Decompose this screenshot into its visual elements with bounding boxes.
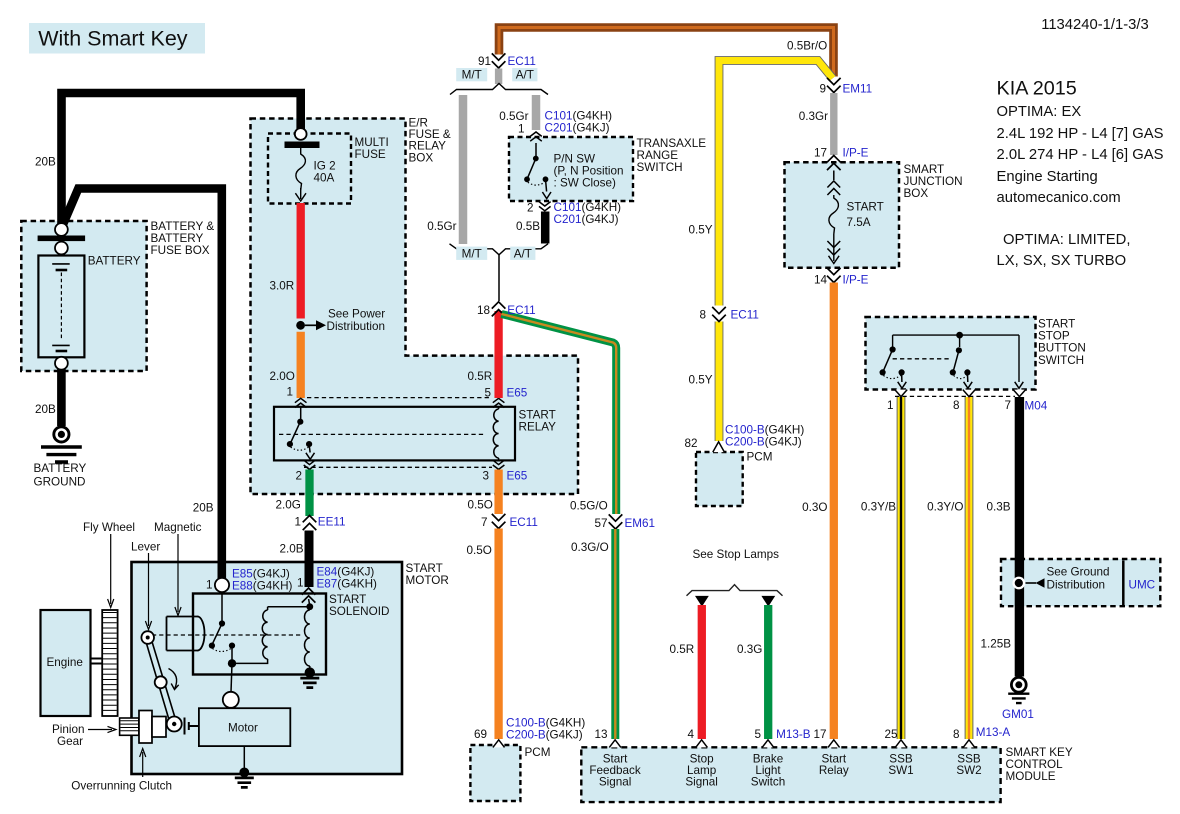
svg-text:Engine Starting: Engine Starting <box>997 169 1098 185</box>
svg-text:See Stop Lamps: See Stop Lamps <box>693 548 780 561</box>
connector 1 C101/C201 <box>530 132 542 141</box>
svg-text:A/T: A/T <box>514 247 532 260</box>
wire 0.3O to module pin17 <box>830 283 838 740</box>
module pin 25 <box>895 740 907 748</box>
svg-text:0.3B: 0.3B <box>986 501 1010 514</box>
svg-text:13: 13 <box>594 728 607 741</box>
wire 2.0O <box>297 332 305 398</box>
motor ground <box>239 768 249 778</box>
gray stub below EC11 <box>495 69 502 85</box>
svg-text:0.3G: 0.3G <box>737 643 762 656</box>
svg-text:8: 8 <box>953 728 960 741</box>
M/T A/T merge bracket <box>450 244 549 255</box>
svg-text:E87(G4KH): E87(G4KH) <box>317 578 378 591</box>
multi fuse terminal <box>295 128 307 140</box>
M04 pin 1 <box>895 390 907 397</box>
relay coil <box>493 409 498 458</box>
svg-text:See Ground: See Ground <box>1047 566 1110 579</box>
relay switch <box>300 407 302 420</box>
P/N switch <box>535 143 537 157</box>
wire 0.5R relay pin5 <box>494 311 502 398</box>
svg-text:0.3Gr: 0.3Gr <box>799 110 828 123</box>
svg-text:RANGE: RANGE <box>637 149 679 162</box>
svg-text:FUSE BOX: FUSE BOX <box>151 244 210 257</box>
PCM pin 82 <box>713 442 725 452</box>
relay internal dashed link <box>279 433 486 435</box>
svg-text:M13-B: M13-B <box>776 728 811 741</box>
connector 1 EE11 <box>303 516 317 531</box>
module pin 17 <box>828 740 840 748</box>
svg-text:0.5Gr: 0.5Gr <box>499 110 528 123</box>
svg-text:69: 69 <box>474 728 487 741</box>
ground distribution junction <box>1012 577 1025 590</box>
svg-text:Distribution: Distribution <box>1047 579 1105 592</box>
start solenoid connector E84/E87 <box>302 588 316 603</box>
svg-text:5: 5 <box>484 386 491 399</box>
svg-text:E85(G4KJ): E85(G4KJ) <box>232 568 290 581</box>
svg-text:8: 8 <box>699 309 706 322</box>
svg-text:0.5G/O: 0.5G/O <box>570 499 608 512</box>
svg-text:0.3Y/O: 0.3Y/O <box>927 501 963 514</box>
svg-text:BATTERY &: BATTERY & <box>151 220 215 233</box>
power distribution junction <box>296 321 305 330</box>
start motor battery terminal <box>215 578 229 592</box>
wire 0.5B <box>541 212 550 244</box>
SSB switch 2 <box>959 335 961 347</box>
svg-text:7: 7 <box>1004 399 1011 412</box>
svg-text:Lever: Lever <box>131 541 160 554</box>
svg-text:0.5R: 0.5R <box>468 370 493 383</box>
SSB right leg <box>1018 335 1020 382</box>
svg-text:UMC: UMC <box>1129 579 1156 592</box>
svg-text:LX, SX, SX TURBO: LX, SX, SX TURBO <box>997 253 1127 269</box>
lever rotation arrow <box>169 669 177 689</box>
svg-text:START: START <box>847 201 884 214</box>
fuse START 7.5A <box>833 171 835 181</box>
smart junction box <box>785 162 900 267</box>
svg-text:1: 1 <box>294 515 301 528</box>
svg-text:20B: 20B <box>35 403 56 416</box>
svg-text:EC11: EC11 <box>510 516 538 529</box>
start motor box <box>132 562 403 774</box>
engine block <box>41 610 91 716</box>
svg-text:BUTTON: BUTTON <box>1038 342 1086 355</box>
module pin 4 <box>696 740 708 748</box>
E/R fuse and relay box <box>251 119 579 495</box>
svg-text:3: 3 <box>482 469 489 482</box>
svg-text:0.5Y: 0.5Y <box>688 223 712 236</box>
wire 0.3Y/O <box>965 397 974 739</box>
connector 9 EM11 <box>827 78 841 93</box>
svg-text:Motor: Motor <box>228 721 258 734</box>
svg-text:CONTROL: CONTROL <box>1006 758 1064 771</box>
wire 0.5O relay pin3 to EC11 <box>494 470 502 515</box>
svg-text:18: 18 <box>477 304 490 317</box>
svg-text:M04: M04 <box>1025 400 1048 413</box>
svg-text:C201(G4KJ): C201(G4KJ) <box>554 213 619 226</box>
wire 0.5Y EC11 to PCM 82 <box>715 322 724 442</box>
wire 0.5R stop lamp signal <box>698 605 706 739</box>
svg-text:0.5O: 0.5O <box>468 498 493 511</box>
fuse IG 2 40A <box>296 148 306 190</box>
svg-text:GROUND: GROUND <box>34 476 86 489</box>
svg-text:EE11: EE11 <box>318 515 346 528</box>
wire 0.5Gr M/T <box>459 95 468 244</box>
svg-text:0.5Gr: 0.5Gr <box>427 220 456 233</box>
ground GM01 <box>1011 677 1026 692</box>
wire 0.5O EC11 to PCM 69 <box>494 529 502 740</box>
stop lamp arrow left <box>695 596 709 607</box>
svg-text:57: 57 <box>594 517 607 530</box>
M/T A/T split bracket <box>450 84 548 95</box>
svg-text:1: 1 <box>887 399 894 412</box>
svg-text:2.0G: 2.0G <box>276 498 301 511</box>
battery and battery fuse box <box>21 221 146 371</box>
solenoid ground <box>305 667 315 677</box>
svg-text:SWITCH: SWITCH <box>637 161 683 174</box>
svg-text:25: 25 <box>884 728 898 741</box>
svg-text:Distribution: Distribution <box>327 320 385 333</box>
svg-text:KIA 2015: KIA 2015 <box>997 78 1077 100</box>
svg-text:SMART KEY: SMART KEY <box>1006 746 1073 759</box>
mechanical link dashed line <box>152 634 303 636</box>
wire 0.3Gr <box>830 93 837 155</box>
svg-text:2.0L 274 HP - L4 [6] GAS: 2.0L 274 HP - L4 [6] GAS <box>997 147 1164 163</box>
wire 20B battery to multi fuse <box>62 93 301 226</box>
connector 2 C101/C201 <box>539 202 551 211</box>
svg-text:0.5Br/O: 0.5Br/O <box>787 40 827 53</box>
PCM box (pin 69) <box>470 745 520 801</box>
svg-text:BATTERY: BATTERY <box>34 462 87 475</box>
svg-text:BATTERY: BATTERY <box>88 255 141 268</box>
svg-text:Signal: Signal <box>599 775 632 788</box>
svg-text:8: 8 <box>953 399 960 412</box>
svg-text:Overrunning Clutch: Overrunning Clutch <box>71 779 172 792</box>
svg-text:E84(G4KJ): E84(G4KJ) <box>317 566 375 579</box>
wire 2.0G relay pin2 to EE11 <box>305 470 313 517</box>
svg-text:Pinion: Pinion <box>52 723 85 736</box>
svg-text:Fly Wheel: Fly Wheel <box>83 521 135 534</box>
svg-text:82: 82 <box>684 437 697 450</box>
svg-text:OPTIMA: EX: OPTIMA: EX <box>997 104 1082 120</box>
svg-text:0.5Y: 0.5Y <box>688 373 712 386</box>
svg-text:PCM: PCM <box>747 451 773 464</box>
svg-text:C100-B(G4KH): C100-B(G4KH) <box>506 717 585 730</box>
svg-text:MULTI: MULTI <box>355 136 389 149</box>
svg-text:Gear: Gear <box>57 735 83 748</box>
fly wheel <box>102 610 117 716</box>
title banner "With Smart Key" <box>29 23 205 54</box>
svg-text:Relay: Relay <box>819 764 849 777</box>
svg-text:9: 9 <box>819 83 826 96</box>
svg-text:14: 14 <box>814 274 828 287</box>
svg-text:7: 7 <box>481 516 488 529</box>
wire 20B battery to start motor <box>63 189 222 581</box>
svg-text:Magnetic: Magnetic <box>154 521 202 534</box>
solenoid coils <box>309 599 310 606</box>
stop lamps bracket <box>687 585 783 596</box>
connector 8 EC11 <box>712 307 726 322</box>
svg-text:TRANSAXLE: TRANSAXLE <box>637 137 707 150</box>
svg-text:C201(G4KJ): C201(G4KJ) <box>545 121 610 134</box>
svg-text:(P, N Position: (P, N Position <box>554 164 624 177</box>
connector M04 dashed line <box>895 395 1015 397</box>
svg-text:17: 17 <box>813 728 826 741</box>
SSB switch 1 <box>892 335 894 346</box>
solenoid motor-feed junction <box>228 659 236 667</box>
multi fuse bar <box>285 142 320 149</box>
svg-text:MODULE: MODULE <box>1006 770 1056 783</box>
svg-text:C200-B(G4KJ): C200-B(G4KJ) <box>725 436 802 449</box>
svg-text:1: 1 <box>297 577 304 590</box>
wire 2.0B EE11 to start motor <box>305 531 314 588</box>
connector 17 I/P-E <box>827 156 841 171</box>
PCM box (pin 82) <box>696 452 743 506</box>
svg-text:With Smart Key: With Smart Key <box>38 27 188 51</box>
svg-text:EC11: EC11 <box>507 304 535 317</box>
svg-text:1: 1 <box>206 579 213 592</box>
svg-text:START: START <box>519 409 556 422</box>
overrunning clutch <box>139 711 152 744</box>
lever arm <box>146 637 177 727</box>
solenoid switch <box>221 592 223 621</box>
svg-text:0.5B: 0.5B <box>516 220 540 233</box>
svg-text:START: START <box>406 562 443 575</box>
svg-text:SMART: SMART <box>904 163 945 176</box>
svg-text:0.5O: 0.5O <box>467 544 492 557</box>
svg-text:2.4L 192 HP - L4 [7] GAS: 2.4L 192 HP - L4 [7] GAS <box>997 126 1164 142</box>
svg-text:PCM: PCM <box>525 746 551 759</box>
relay pin 2 connector <box>304 460 316 469</box>
svg-text:2: 2 <box>295 469 302 482</box>
svg-text:2.0O: 2.0O <box>270 370 295 383</box>
svg-text:RELAY: RELAY <box>519 421 557 434</box>
connector 14 I/P-E <box>827 268 841 283</box>
svg-text:C200-B(G4KJ): C200-B(G4KJ) <box>506 729 583 742</box>
svg-text:Engine: Engine <box>47 656 83 669</box>
start relay box <box>274 407 515 461</box>
wire 0.5Gr A/T <box>532 95 541 130</box>
motor terminal <box>223 692 239 708</box>
svg-text:0.3G/O: 0.3G/O <box>571 541 609 554</box>
transaxle range switch box <box>509 137 633 201</box>
svg-text:Switch: Switch <box>751 775 785 788</box>
svg-text:1: 1 <box>518 123 525 136</box>
wire battery to ground <box>57 367 66 426</box>
connector 7 EC11 <box>492 514 506 529</box>
svg-text:A/T: A/T <box>516 69 534 82</box>
svg-text:17: 17 <box>814 146 827 159</box>
svg-text:OPTIMA: LIMITED,: OPTIMA: LIMITED, <box>1003 232 1130 248</box>
module pin 5 <box>762 740 774 748</box>
svg-text:BATTERY: BATTERY <box>151 232 204 245</box>
see ground distribution / UMC box <box>1001 559 1160 606</box>
svg-text:SOLENOID: SOLENOID <box>329 605 389 618</box>
svg-text:EM61: EM61 <box>625 517 656 530</box>
svg-text:I/P-E: I/P-E <box>843 146 869 159</box>
svg-text:GM01: GM01 <box>1002 708 1034 721</box>
smart key control module box <box>581 747 1000 802</box>
battery <box>38 256 84 358</box>
svg-text:P/N SW: P/N SW <box>554 152 596 165</box>
connector 18 EC11 <box>492 302 506 317</box>
UMC separator <box>1122 561 1125 606</box>
svg-text:7.5A: 7.5A <box>847 216 871 229</box>
PCM pin 69 <box>493 740 505 748</box>
svg-text:2: 2 <box>527 202 534 215</box>
connector 91 EC11 <box>492 53 506 68</box>
relay pin 5 connector <box>493 398 505 407</box>
svg-text:2.0B: 2.0B <box>280 542 304 555</box>
svg-text:0.3Y/B: 0.3Y/B <box>861 501 896 514</box>
SSB top rail <box>893 334 1019 336</box>
wire 0.3B to ground <box>1015 397 1024 677</box>
battery terminals <box>55 223 68 236</box>
svg-text:0.3O: 0.3O <box>802 501 827 514</box>
svg-text:BOX: BOX <box>409 151 434 164</box>
engine shaft <box>91 659 103 664</box>
svg-text:START: START <box>329 593 366 606</box>
svg-text:EC11: EC11 <box>731 309 759 322</box>
svg-text:Signal: Signal <box>685 775 718 788</box>
connector E65 dashed pin lines <box>307 397 491 399</box>
svg-text:automecanico.com: automecanico.com <box>997 190 1121 206</box>
svg-text:EM11: EM11 <box>843 83 873 96</box>
SSB ganged dashed link <box>893 358 950 360</box>
svg-text:SW2: SW2 <box>956 764 981 777</box>
svg-text:FUSE: FUSE <box>355 148 386 161</box>
svg-text:START: START <box>1038 318 1075 331</box>
svg-text:M/T: M/T <box>462 69 482 82</box>
svg-text:3.0R: 3.0R <box>270 280 295 293</box>
svg-text:1134240-1/1-3/3: 1134240-1/1-3/3 <box>1041 17 1149 33</box>
svg-text:4: 4 <box>687 728 694 741</box>
svg-text:20B: 20B <box>35 155 56 168</box>
start stop button switch box <box>866 317 1036 390</box>
svg-text:40A: 40A <box>314 172 335 185</box>
svg-text:91: 91 <box>478 55 491 68</box>
wire 0.5G/O EC11 to EM61 <box>502 314 617 514</box>
svg-text:M/T: M/T <box>462 247 482 260</box>
svg-text:MOTOR: MOTOR <box>406 574 449 587</box>
svg-text:E65: E65 <box>507 469 528 482</box>
merge line down to EC11 <box>498 255 500 301</box>
battery fuse bar <box>38 236 86 242</box>
svg-text:EC11: EC11 <box>508 55 536 68</box>
wire 0.5Br/O brown <box>499 28 834 77</box>
svg-text:E65: E65 <box>507 386 528 399</box>
multi fuse box <box>268 134 351 204</box>
start solenoid box <box>193 594 326 675</box>
wire 0.3G/O EM61 to module pin13 <box>611 529 619 739</box>
svg-text:I/P-E: I/P-E <box>843 274 869 287</box>
wire 0.5Y yellow riser <box>719 61 833 306</box>
pinion gear <box>120 718 139 735</box>
svg-text:STOP: STOP <box>1038 330 1070 343</box>
svg-text:5: 5 <box>754 728 761 741</box>
module pin 8 <box>963 740 975 748</box>
motor <box>199 708 290 746</box>
wire 0.3Y/B <box>897 397 906 739</box>
svg-text:BOX: BOX <box>904 187 929 200</box>
magnetic plunger <box>167 617 199 651</box>
svg-text:0.5R: 0.5R <box>670 643 695 656</box>
M04 pin 7 <box>1013 390 1025 397</box>
svg-text:See Power: See Power <box>328 308 385 321</box>
svg-text:SW1: SW1 <box>888 764 913 777</box>
svg-text:C100-B(G4KH): C100-B(G4KH) <box>725 424 804 437</box>
module pin 13 <box>609 740 621 748</box>
stop lamp arrow right <box>761 596 775 607</box>
svg-text:1: 1 <box>286 386 293 399</box>
svg-text:1.25B: 1.25B <box>980 638 1011 651</box>
battery ground <box>54 427 69 442</box>
svg-text:C101(G4KH): C101(G4KH) <box>545 109 613 122</box>
svg-text:JUNCTION: JUNCTION <box>904 175 963 188</box>
relay pin 1 connector <box>295 398 307 407</box>
wire 3.0R <box>297 203 305 319</box>
svg-text:C101(G4KH): C101(G4KH) <box>554 201 622 214</box>
svg-text:IG 2: IG 2 <box>314 160 336 173</box>
svg-text:E88(G4KH): E88(G4KH) <box>232 580 293 593</box>
M04 pin 8 <box>963 390 975 397</box>
svg-text:20B: 20B <box>193 502 214 515</box>
wire 0.3G brake light switch <box>764 605 772 739</box>
svg-text:M13-A: M13-A <box>976 726 1011 739</box>
svg-text:: SW Close): : SW Close) <box>554 177 616 190</box>
relay pin 3 connector <box>493 460 505 469</box>
svg-text:SWITCH: SWITCH <box>1038 354 1084 367</box>
connector 57 EM61 <box>609 514 623 529</box>
